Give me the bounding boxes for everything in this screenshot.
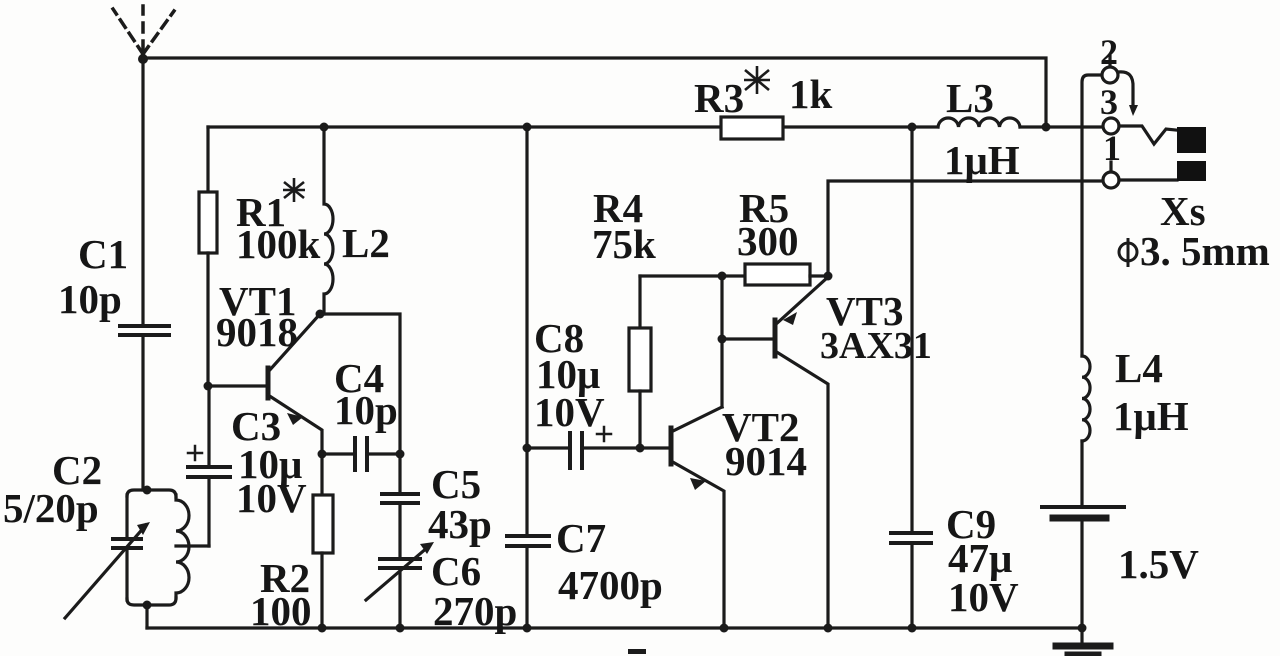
jack Xs pin 2 — [1102, 56, 1138, 116]
svg-text:L2: L2 — [342, 220, 390, 266]
svg-text:1: 1 — [1103, 128, 1121, 168]
svg-text:3: 3 — [1100, 82, 1118, 122]
svg-text:1μH: 1μH — [944, 137, 1020, 183]
capacitor C2 (variable) — [65, 495, 150, 618]
antenna — [113, 6, 174, 54]
node tank bottom — [143, 601, 152, 610]
node R4 bottom junction — [636, 444, 645, 453]
wire C1 to tank — [141, 335, 144, 490]
svg-text:300: 300 — [737, 218, 799, 264]
node C8 left junction — [523, 444, 532, 453]
capacitor C3 — [188, 386, 230, 546]
node battery-ground junction — [1078, 624, 1087, 633]
svg-text:R3: R3 — [694, 75, 744, 121]
node VT1 emitter junction — [318, 450, 327, 459]
svg-text:C1: C1 — [78, 231, 128, 277]
svg-text:10p: 10p — [334, 387, 398, 433]
wire VT3 emitter to jack pin1 — [828, 181, 1103, 277]
svg-text:10V: 10V — [534, 389, 605, 435]
inductor L2 — [324, 127, 333, 314]
jack Xs pin 1 — [1103, 162, 1177, 188]
svg-text:L3: L3 — [946, 75, 994, 121]
node R3-L3 junction — [908, 123, 917, 132]
wire tank frame bottom — [127, 598, 176, 605]
svg-text:43p: 43p — [428, 501, 492, 547]
wire antenna down to C1 — [141, 58, 144, 326]
resistor R2 — [313, 454, 333, 628]
jack Xs pin 3 — [1103, 118, 1176, 144]
wire tank to ground rail — [145, 605, 148, 628]
svg-text:1.5V: 1.5V — [1118, 541, 1199, 587]
capacitor C9 — [891, 533, 931, 628]
resistor R3 — [721, 117, 783, 139]
wire bottom rail — [147, 626, 1082, 629]
node rail dots — [318, 624, 917, 633]
stray mark bottom center — [628, 649, 646, 654]
wire R4 top to R5 — [640, 274, 722, 277]
capacitor C7 — [507, 448, 549, 628]
wire second rail — [208, 125, 721, 128]
inductor L3 — [938, 118, 1020, 127]
wire C7 line — [525, 127, 528, 448]
svg-text:1μH: 1μH — [1113, 393, 1189, 439]
transistor VT1 — [208, 314, 322, 454]
battery 1.5V — [1042, 441, 1124, 628]
svg-text:2: 2 — [1100, 32, 1118, 72]
svg-text:75k: 75k — [592, 221, 656, 267]
svg-text:4700p: 4700p — [558, 562, 663, 608]
label R3 star — [744, 66, 770, 94]
svg-text:C7: C7 — [556, 515, 606, 561]
svg-text:9014: 9014 — [725, 438, 807, 484]
node VT3 base tap — [718, 335, 727, 344]
capacitor C5 — [382, 454, 418, 503]
svg-text:10V: 10V — [948, 574, 1019, 620]
node tank top — [143, 486, 152, 495]
svg-text:270p: 270p — [433, 588, 517, 634]
resistor R4 — [629, 276, 651, 448]
node R5 right junction — [824, 272, 833, 281]
inductor L1 — [176, 495, 189, 598]
label R1 star — [283, 178, 305, 202]
node top rail corner — [1042, 123, 1051, 132]
node L2 top — [320, 123, 329, 132]
inductor L4 — [1082, 356, 1090, 441]
svg-text:5/20p: 5/20p — [3, 485, 99, 531]
node VT1 collector junction — [316, 310, 325, 319]
node C4 right junction — [396, 450, 405, 459]
resistor R1 — [199, 127, 217, 386]
jack Xs plug — [1177, 127, 1206, 181]
svg-text:100k: 100k — [236, 221, 321, 267]
svg-text:100: 100 — [250, 588, 312, 634]
wire C9 line — [910, 127, 913, 533]
svg-text:1k: 1k — [789, 71, 833, 117]
svg-text:9018: 9018 — [216, 309, 298, 355]
capacitor C8 — [527, 427, 671, 468]
wire top rail — [143, 58, 1046, 127]
svg-text:3AX31: 3AX31 — [820, 325, 932, 367]
transistor VT3 — [722, 277, 828, 628]
node C7 line top — [523, 123, 532, 132]
node VT1 base junction — [204, 382, 213, 391]
node R4-R5-VT2 junction — [718, 272, 727, 281]
transistor VT2 — [671, 276, 724, 628]
wire jack pin2 bracket — [1082, 75, 1102, 356]
wire tank frame top — [127, 490, 176, 497]
ground — [1056, 628, 1110, 655]
capacitor C6 (variable) — [366, 503, 434, 628]
svg-text:L4: L4 — [1115, 345, 1163, 391]
node antenna junction — [138, 54, 148, 64]
svg-text:3. 5mm: 3. 5mm — [1140, 228, 1270, 274]
resistor R5 — [722, 264, 828, 285]
label phi 3.5mm — [1119, 228, 1270, 274]
wire collector to C4 right — [320, 314, 400, 454]
svg-text:10p: 10p — [58, 276, 122, 322]
wire L1 tap — [176, 544, 209, 547]
capacitor C1 — [120, 326, 169, 335]
capacitor C4 — [322, 438, 400, 470]
svg-text:10V: 10V — [236, 475, 307, 521]
